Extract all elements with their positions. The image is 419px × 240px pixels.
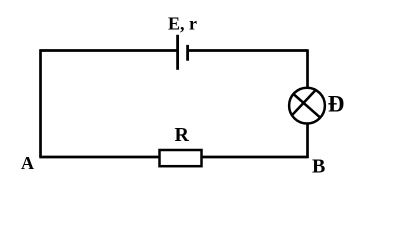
svg-text:A: A — [21, 153, 34, 173]
svg-text:Đ: Đ — [328, 91, 345, 116]
svg-text:R: R — [175, 124, 190, 146]
svg-text:E, r: E, r — [168, 14, 197, 34]
svg-text:B: B — [312, 156, 325, 178]
